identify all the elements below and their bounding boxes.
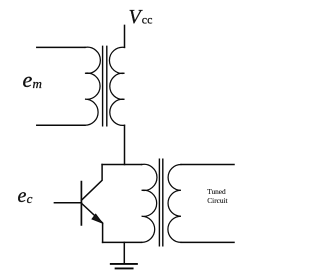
transformer T2 core xyxy=(159,159,162,246)
svg-text:cc: cc xyxy=(142,13,153,27)
label em xyxy=(23,67,42,92)
svg-text:Tuned: Tuned xyxy=(207,187,226,196)
wire base lead xyxy=(54,202,81,204)
wire T2 secondary bottom lead xyxy=(181,241,234,243)
ground bar 1 xyxy=(111,263,137,265)
wire Vcc to T1 right winding top xyxy=(124,25,126,47)
ground bar 2 xyxy=(116,267,133,269)
transformer T1 core xyxy=(103,46,107,126)
svg-text:c: c xyxy=(27,191,33,206)
wire collector node to T2 primary top xyxy=(102,164,142,166)
svg-text:Circuit: Circuit xyxy=(207,196,227,205)
label Vcc xyxy=(129,6,153,28)
wire T1 secondary bottom to collector node xyxy=(124,125,126,164)
transistor Q1 base bar xyxy=(80,182,82,225)
label ec xyxy=(18,185,33,207)
svg-text:e: e xyxy=(18,185,27,207)
transistor Q1 emitter arrowhead xyxy=(92,214,103,223)
wire emitter to T2 primary bottom xyxy=(103,241,142,243)
ground stem xyxy=(123,242,125,263)
wire T2 secondary top lead xyxy=(181,164,234,166)
wire T1 primary top lead xyxy=(37,46,85,48)
svg-text:m: m xyxy=(33,76,42,91)
svg-text:e: e xyxy=(23,67,33,92)
transformer T1 right winding xyxy=(109,47,124,125)
label Tuned Circuit xyxy=(207,187,227,205)
transformer T1 left winding xyxy=(85,47,100,125)
transistor Q1 collector lead xyxy=(82,165,103,201)
wire T1 primary bottom lead xyxy=(37,124,85,126)
transistor Q1 emitter lead xyxy=(82,203,103,242)
transformer T2 right winding xyxy=(168,165,181,243)
transformer T2 left winding xyxy=(142,164,157,242)
